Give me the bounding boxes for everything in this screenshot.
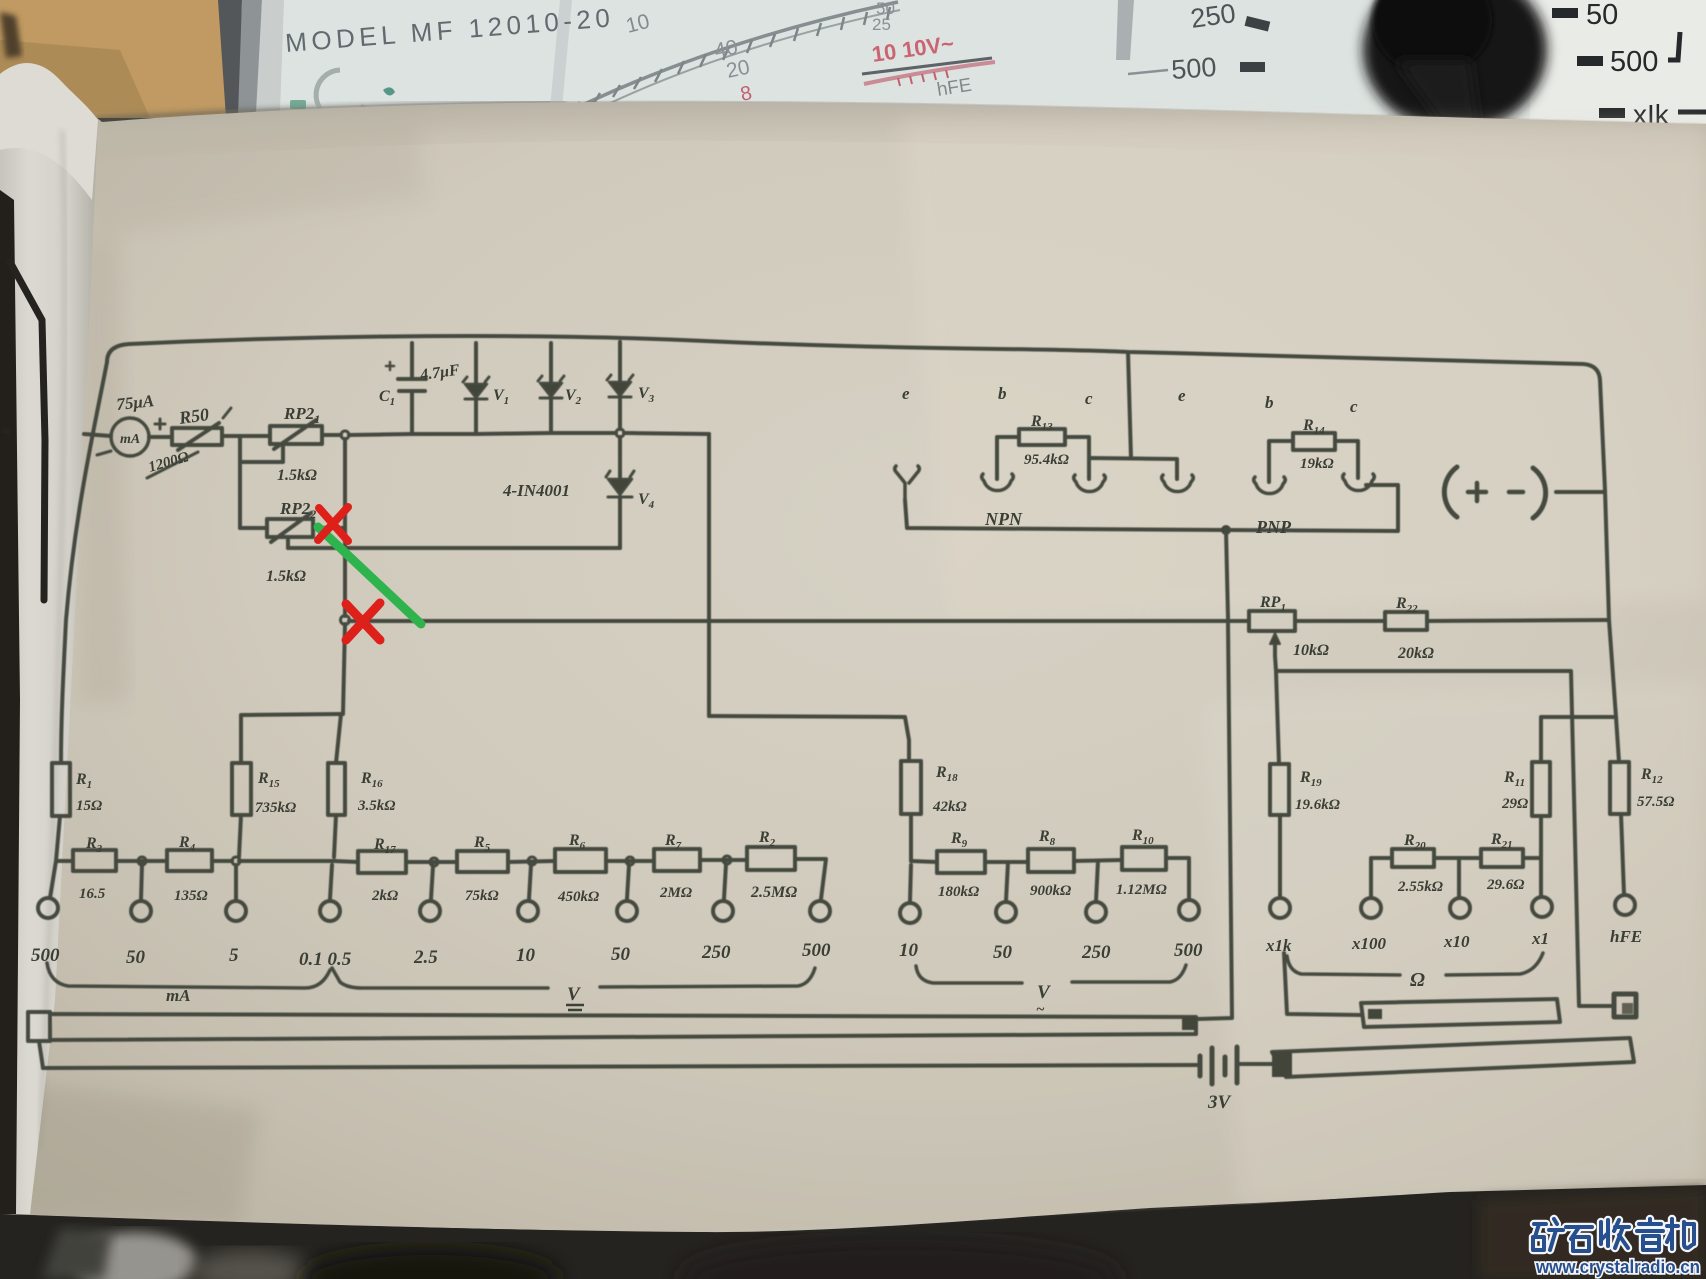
wire vertical x345 — [343, 439, 345, 714]
black knob — [1363, 0, 1547, 132]
char ji — [1667, 1219, 1694, 1249]
socket b PNP — [1254, 477, 1286, 494]
svg-text:b: b — [998, 384, 1007, 403]
contact ohm x10 — [1450, 898, 1470, 918]
diode V3 — [618, 342, 622, 429]
bus bar 1 — [50, 1014, 1196, 1040]
node V3 junction circle — [616, 429, 624, 437]
svg-text:50: 50 — [126, 947, 146, 968]
frame corner line — [10, 262, 45, 600]
resistor R9 — [937, 851, 985, 873]
svg-text:2.55kΩ: 2.55kΩ — [1397, 879, 1443, 895]
node junction circle at bus break — [341, 616, 350, 625]
socket e PNP — [1162, 475, 1194, 492]
svg-text:x10: x10 — [1443, 932, 1470, 951]
wire R50 to RP2-1 — [222, 434, 270, 438]
svg-text:75μA: 75μA — [115, 391, 155, 414]
svg-text:V: V — [567, 984, 581, 1005]
capacitor C1 — [398, 343, 426, 434]
switch square contact — [1614, 994, 1636, 1017]
char shou — [1601, 1220, 1629, 1248]
svg-text:www.crystalradio.cn: www.crystalradio.cn — [1535, 1257, 1700, 1277]
diode V4 — [618, 437, 622, 548]
meter M 75uA — [111, 418, 149, 456]
wire row mA/V — [239, 859, 334, 863]
wire y718 tie — [1541, 717, 1619, 762]
svg-text:735kΩ: 735kΩ — [255, 800, 296, 816]
char kuang — [1533, 1219, 1563, 1250]
resistor R50 — [172, 428, 222, 445]
svg-text:x1k: x1k — [1265, 936, 1292, 955]
svg-text:2.5: 2.5 — [413, 947, 438, 968]
contact Vac 10 — [900, 903, 920, 923]
bracket mA — [47, 963, 330, 988]
left page curl (edge of flipped pages) — [0, 63, 98, 1214]
watermark characters (stroke drawn) — [1533, 1219, 1694, 1251]
wire bottom rail — [43, 1065, 1198, 1068]
svg-text:e: e — [902, 384, 910, 403]
svg-text:e: e — [1178, 386, 1186, 405]
resistor R13 — [1019, 429, 1065, 445]
svg-text:250: 250 — [1081, 942, 1111, 963]
svg-text:19.6kΩ: 19.6kΩ — [1295, 797, 1340, 813]
bottom-left corner shading — [0, 1080, 260, 1225]
jack minus — [1509, 490, 1523, 495]
wire vertical x1227 — [1198, 530, 1232, 1019]
resistor R4 — [167, 850, 212, 871]
svg-text:180kΩ: 180kΩ — [938, 884, 979, 900]
resistor R17 — [358, 851, 406, 873]
node junction circle — [341, 431, 349, 439]
wire RP1 wiper down — [1275, 656, 1276, 671]
junction dot — [1221, 525, 1231, 535]
wire c-e tie — [1089, 458, 1177, 479]
char shi — [1566, 1227, 1592, 1251]
red X mark 2 — [346, 603, 380, 640]
svg-text:10kΩ: 10kΩ — [1293, 642, 1329, 659]
dial main arc with ticks — [548, 2, 898, 122]
resistor R22 — [1385, 612, 1427, 630]
resistor R3 — [73, 850, 116, 871]
svg-text:50: 50 — [1586, 0, 1618, 31]
green annotation line — [318, 527, 421, 624]
svg-text:15Ω: 15Ω — [76, 798, 102, 814]
socket b NPN — [982, 474, 1014, 491]
bracket V ac — [916, 965, 1186, 983]
contact ohm x1k — [1270, 898, 1290, 918]
svg-text:19kΩ: 19kΩ — [1300, 456, 1334, 472]
char shi navy — [1566, 1227, 1592, 1251]
contact V 500 — [810, 901, 830, 921]
resistor R8 — [1028, 849, 1074, 872]
svg-text:57.5Ω: 57.5Ω — [1637, 794, 1674, 810]
svg-text:1.5kΩ: 1.5kΩ — [277, 467, 317, 484]
contact mA 500 — [38, 898, 58, 918]
svg-text:95.4kΩ: 95.4kΩ — [1024, 452, 1069, 468]
contact ohm x100 — [1361, 898, 1381, 918]
wire bus y621 — [349, 619, 1249, 623]
contact Vac 50 — [996, 902, 1016, 922]
resistor R7 — [654, 849, 700, 871]
char yin — [1637, 1219, 1663, 1250]
gap shadow line above page edge — [95, 103, 565, 120]
svg-text:1.12MΩ: 1.12MΩ — [1116, 882, 1167, 898]
wire: outer border top — [107, 336, 1600, 380]
meter face background — [200, 0, 1706, 135]
svg-text:42kΩ: 42kΩ — [932, 799, 967, 815]
wire border drop to tie — [1128, 352, 1131, 458]
wire y671 to right drop — [1276, 671, 1612, 1006]
contact V 50 — [617, 901, 637, 921]
resistor R1 — [52, 763, 70, 816]
svg-text:135Ω: 135Ω — [174, 888, 208, 904]
socket e (Y shape) — [895, 466, 920, 500]
wire y716 to R18 — [709, 716, 909, 761]
svg-text:hFE: hFE — [1610, 927, 1642, 946]
dark desk below page — [0, 1185, 1706, 1279]
top right lighter — [900, 120, 1706, 620]
bracket ohm — [1287, 953, 1543, 975]
diode V1 — [474, 343, 478, 434]
svg-text:29Ω: 29Ω — [1501, 796, 1528, 812]
glass seam — [550, 0, 572, 108]
meter logo crescent — [316, 70, 364, 120]
svg-text:PNP: PNP — [1255, 517, 1292, 537]
svg-text:75kΩ: 75kΩ — [465, 888, 499, 904]
resistor R18 — [901, 761, 921, 814]
dark book edge far left — [0, 190, 20, 1214]
bracket V dc — [332, 968, 815, 988]
svg-text:20: 20 — [724, 56, 752, 83]
resistor R16 — [328, 763, 345, 815]
svg-text:50: 50 — [611, 944, 631, 965]
svg-text:c: c — [1085, 389, 1093, 408]
soft shading left of schematic — [60, 120, 425, 235]
wire x1k to bar2 — [1284, 953, 1361, 1015]
svg-text:10: 10 — [899, 940, 919, 961]
potentiometer RP1 — [1249, 611, 1295, 631]
contact V 10 — [518, 901, 538, 921]
wire RP2-1 to node — [322, 433, 341, 437]
svg-text:V: V — [1037, 982, 1051, 1003]
wire RP1 to R19 — [1276, 671, 1279, 764]
wire junction drop x240 — [238, 436, 242, 528]
resistor R11 — [1532, 762, 1550, 816]
contact mA 5 — [226, 901, 246, 921]
dark smudge left — [0, 12, 22, 58]
svg-text:x100: x100 — [1351, 934, 1387, 953]
svg-text:mA: mA — [166, 986, 191, 1005]
red X mark 1 — [318, 507, 348, 541]
contact ohm x1 — [1532, 897, 1552, 917]
svg-text:500: 500 — [1610, 46, 1658, 78]
svg-text:450kΩ: 450kΩ — [557, 889, 599, 905]
battery 3V — [1198, 1056, 1203, 1076]
svg-text:25: 25 — [872, 15, 891, 34]
wooden table top-left — [0, 0, 248, 118]
svg-text:500: 500 — [802, 940, 831, 961]
svg-text:b: b — [1265, 393, 1274, 412]
resistor R20 — [1392, 849, 1434, 867]
svg-text:50: 50 — [993, 942, 1013, 963]
svg-text:900kΩ: 900kΩ — [1030, 883, 1071, 899]
svg-text:2MΩ: 2MΩ — [659, 885, 692, 901]
resistor R5 — [457, 851, 508, 872]
svg-text:29.6Ω: 29.6Ω — [1486, 877, 1524, 893]
svg-text:16.5: 16.5 — [79, 886, 106, 902]
potentiometer RP2-1 — [270, 426, 322, 444]
wire y548 RP2-2 to V4 — [288, 546, 620, 550]
potentiometer RP2-2 — [267, 519, 313, 537]
wire bar1 to bottom rail — [39, 1041, 43, 1068]
svg-text:x1: x1 — [1531, 929, 1549, 948]
char yin navy — [1637, 1219, 1663, 1250]
svg-text:Ω: Ω — [1410, 969, 1425, 991]
svg-text:R50: R50 — [177, 404, 210, 428]
svg-text:1.5kΩ: 1.5kΩ — [266, 568, 306, 585]
far right markings — [1552, 8, 1578, 18]
resistor R15 — [232, 763, 251, 815]
top edge shadow band — [95, 101, 1706, 165]
svg-text:4-IN4001: 4-IN4001 — [502, 481, 570, 500]
right meter markings 250/500 — [1116, 0, 1134, 60]
svg-text:500: 500 — [1170, 52, 1217, 85]
char shou navy — [1601, 1220, 1629, 1248]
svg-text:~: ~ — [1036, 1002, 1045, 1018]
contact Vac 250 — [1086, 902, 1106, 922]
svg-text:5: 5 — [229, 945, 239, 966]
svg-text:500: 500 — [1174, 940, 1203, 961]
contact V 250 — [713, 901, 733, 921]
svg-text:0.1 0.5: 0.1 0.5 — [299, 949, 352, 970]
ANNOTATIONS — [318, 507, 421, 640]
svg-text:c: c — [1350, 397, 1358, 416]
bottom right lighter — [1200, 680, 1706, 1205]
svg-text:20kΩ: 20kΩ — [1397, 645, 1434, 662]
PHOTO TOP AREA — [0, 0, 1706, 135]
resistor R14 — [1293, 433, 1335, 450]
resistor R10 — [1122, 847, 1166, 870]
svg-text:3V: 3V — [1207, 1092, 1232, 1113]
char kuang navy — [1533, 1219, 1563, 1250]
contact hFE — [1615, 895, 1635, 915]
wire top rail y434 — [349, 433, 616, 435]
wire vertical x709 — [707, 434, 711, 716]
resistor R2 — [747, 847, 795, 870]
contact mA 50 — [131, 901, 151, 921]
resistor R19 — [1270, 764, 1289, 815]
svg-text:NPN: NPN — [984, 509, 1023, 529]
bus bar 3 — [1272, 1038, 1634, 1077]
svg-text:500: 500 — [31, 945, 60, 966]
svg-text:250: 250 — [701, 942, 731, 963]
jack plus — [1444, 467, 1457, 517]
wire rail to corner x709 — [624, 433, 709, 434]
svg-text:mA: mA — [120, 432, 140, 447]
wire NPN bottom rail — [905, 500, 1226, 530]
socket c NPN — [1074, 475, 1106, 492]
diode V2 — [549, 343, 553, 433]
svg-text:2.5MΩ: 2.5MΩ — [750, 884, 797, 901]
wire: outer border right — [1600, 380, 1616, 717]
svg-text:2kΩ: 2kΩ — [371, 888, 398, 904]
contact Vac 500 — [1179, 900, 1199, 920]
char ji navy — [1667, 1219, 1694, 1249]
svg-text:3.5kΩ: 3.5kΩ — [357, 798, 395, 814]
svg-text:10: 10 — [516, 945, 536, 966]
resistor R21b — [1481, 849, 1523, 867]
BOTTOM DARK + WATERMARK — [0, 1185, 1706, 1279]
socket c PNP — [1343, 474, 1375, 491]
resistor R6 — [555, 849, 606, 872]
resistor R12 — [1610, 762, 1629, 814]
contact V 2.5 — [420, 901, 440, 921]
meter frame dark strip — [218, 0, 242, 118]
contact 0.1/0.5 — [320, 901, 340, 921]
wire: outer border left — [61, 362, 107, 763]
bus bar 2 — [1361, 999, 1560, 1027]
